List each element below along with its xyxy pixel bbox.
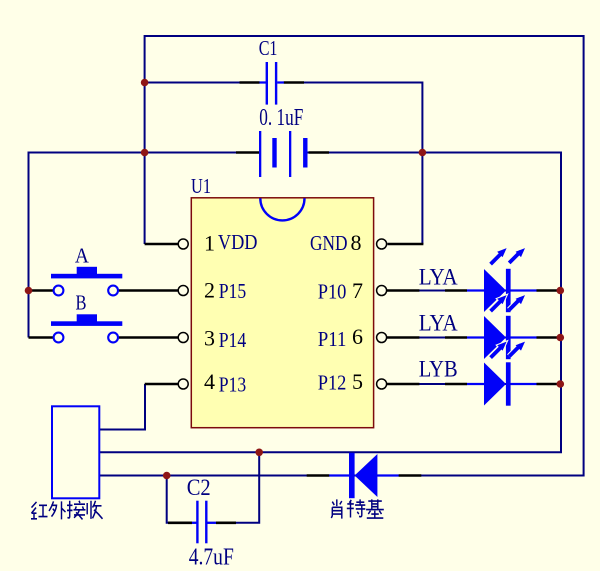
pin lead battery right <box>309 151 329 154</box>
svg-text:P11: P11 <box>318 327 347 351</box>
svg-text:VDD: VDD <box>218 230 258 254</box>
svg-text:B: B <box>76 291 87 315</box>
svg-text:A: A <box>75 244 89 268</box>
pin lead U1 pin1 <box>145 243 178 246</box>
junction dot battery row / GND vertical <box>419 149 427 157</box>
capacitor C2 <box>192 501 216 544</box>
svg-text:LYB: LYB <box>419 357 458 382</box>
glyph 红 <box>31 502 48 519</box>
pin circle U1 pin6 <box>377 333 387 343</box>
pin lead U1 pin6 <box>386 336 419 339</box>
LED 1 (LYA) <box>445 248 559 312</box>
pin circle U1 pin8 <box>377 239 387 249</box>
IC U1 body <box>191 198 373 428</box>
svg-text:8: 8 <box>351 230 362 255</box>
junction dot C2 left / IR pin3 row <box>163 472 171 480</box>
pin lead battery left <box>236 151 260 154</box>
pin circle U1 pin2 <box>178 286 188 296</box>
push button A <box>51 267 122 296</box>
pin lead C1 left <box>240 81 260 84</box>
junction dot LED2 / bus <box>557 334 565 342</box>
wire pin7 to LED1 row <box>386 290 561 292</box>
capacitor C1 <box>260 62 284 105</box>
junction dot LED1 / bus <box>557 287 565 295</box>
junction dot battery row / left vertical <box>141 149 149 157</box>
glyph 肖 <box>331 499 342 518</box>
svg-text:LYA: LYA <box>419 310 458 335</box>
battery BT1 <box>259 131 308 177</box>
svg-text:P12: P12 <box>318 371 347 395</box>
pin lead U1 pin5 <box>386 383 419 386</box>
wire battery row right of battery, LED bus, IR pin2 row <box>99 153 561 453</box>
svg-text:6: 6 <box>352 324 363 349</box>
svg-text:P15: P15 <box>219 279 247 303</box>
pin circle U1 pin3 <box>178 333 188 343</box>
junction dot C2 right / IR pin2 row <box>255 449 263 457</box>
wire C2 branch: left drop to C2 <box>167 476 197 523</box>
glyph 基 <box>366 499 384 518</box>
svg-text:GND: GND <box>310 231 348 255</box>
svg-text:3: 3 <box>204 326 215 351</box>
pin lead C1 right <box>284 81 304 84</box>
pin lead U1 pin8 <box>387 243 423 246</box>
junction dot C1 row / left vertical <box>141 79 149 87</box>
junction dot button A / left rail <box>25 287 33 295</box>
pin lead button A right / U1 pin2 <box>119 289 178 292</box>
pin circle U1 pin5 <box>377 379 387 389</box>
IC U1 notch <box>260 198 304 220</box>
wire net VDD rail: top rail, right edge down, bottom IR pin3 row <box>99 36 583 476</box>
wire pin6 to LED2 row <box>386 337 561 339</box>
pin lead button A left <box>29 289 54 292</box>
svg-text:C1: C1 <box>259 36 278 60</box>
label 红外接收 (IR receiver), hand-drawn glyphs <box>31 501 103 520</box>
svg-text:C2: C2 <box>187 475 211 500</box>
pin lead U1 pin7 <box>386 289 419 292</box>
wire pin5 to LED3 row <box>386 383 561 385</box>
push button B <box>51 314 122 342</box>
svg-text:U1: U1 <box>191 174 211 198</box>
pin circle U1 pin1 <box>178 239 188 249</box>
glyph 接 <box>67 501 86 520</box>
pin lead button B left <box>29 336 54 339</box>
svg-text:4: 4 <box>204 369 215 394</box>
pin lead C2 right <box>216 521 236 524</box>
svg-text:P13: P13 <box>219 373 247 397</box>
junction dot LED3 / bus <box>557 380 565 388</box>
svg-text:7: 7 <box>352 278 363 303</box>
svg-text:4.7uF: 4.7uF <box>189 544 234 570</box>
wire IR pin1 to IC pin4 <box>99 384 145 430</box>
glyph 外 <box>49 501 66 519</box>
pin circle U1 pin7 <box>377 286 387 296</box>
svg-text:LYA: LYA <box>419 264 458 289</box>
pin circle U1 pin4 <box>178 379 188 389</box>
wire C2 branch: right riser <box>207 452 259 523</box>
pin lead C2 left <box>168 521 192 524</box>
pin lead button B right / U1 pin3 <box>119 336 178 339</box>
glyph 收 <box>87 501 102 519</box>
svg-text:1: 1 <box>204 231 215 256</box>
IR receiver module box <box>52 406 99 498</box>
glyph 特 <box>347 499 366 517</box>
svg-text:P14: P14 <box>219 328 247 352</box>
svg-text:P10: P10 <box>318 280 347 304</box>
label 肖特基 (schottky), hand-drawn glyphs <box>331 499 384 518</box>
svg-text:2: 2 <box>204 278 215 303</box>
wire battery rail: left vertical and battery row left of battery <box>29 153 260 338</box>
LED 2 (LYA) <box>445 295 559 359</box>
pin lead U1 pin4 <box>145 383 178 386</box>
schottky diode <box>307 453 422 498</box>
svg-text:0. 1uF: 0. 1uF <box>259 105 303 131</box>
LED 3 (LYB) <box>445 342 559 406</box>
svg-text:5: 5 <box>352 369 363 394</box>
wire C1 top rail right of C1 down to GND pin <box>284 83 423 245</box>
wire C1 top rail left of C1 <box>145 82 260 84</box>
